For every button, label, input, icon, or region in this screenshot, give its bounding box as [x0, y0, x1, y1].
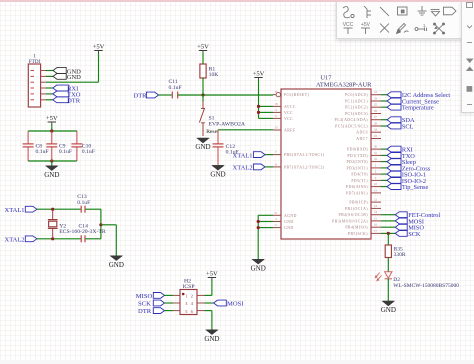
ground (C12) [210, 166, 225, 179]
svg-text:PC1(ADC1): PC1(ADC1) [345, 100, 368, 104]
svg-text:0.1uF: 0.1uF [59, 149, 72, 155]
net flag SDA [387, 117, 415, 124]
svg-text:0.1uF: 0.1uF [169, 85, 182, 91]
svg-text:26: 26 [374, 109, 378, 113]
svg-text:PB1(OC1A): PB1(OC1A) [345, 207, 368, 211]
net flag XTAL2 [5, 236, 37, 244]
svg-text:5: 5 [275, 223, 277, 227]
net flag DTR [138, 308, 173, 316]
svg-text:PC4(ADC4/SDA): PC4(ADC4/SDA) [335, 118, 369, 122]
svg-text:24: 24 [374, 97, 378, 101]
net flag RXI [387, 146, 413, 153]
svg-text:VCC: VCC [284, 117, 293, 121]
wire [381, 167, 387, 169]
svg-text:GND: GND [284, 220, 294, 224]
wire [37, 208, 81, 210]
svg-text:SCL: SCL [402, 124, 414, 131]
svg-text:DTR: DTR [67, 97, 81, 104]
op-amp U17 microcontroller ATMEGA328P-AUR [273, 75, 381, 240]
ground (S1) [195, 138, 210, 151]
icon pen tool [397, 24, 409, 34]
wire [205, 311, 212, 330]
wire [46, 99, 53, 101]
wire [381, 232, 395, 234]
wire [259, 117, 274, 119]
wire [387, 258, 389, 272]
svg-text:+5V: +5V [361, 22, 371, 28]
svg-text:13: 13 [374, 204, 378, 208]
svg-text:VCC: VCC [284, 111, 293, 115]
svg-text:PB5(SCK): PB5(SCK) [348, 232, 368, 236]
junction [50, 159, 53, 162]
svg-text:2: 2 [375, 170, 377, 174]
junction [50, 129, 53, 132]
svg-text:21: 21 [274, 211, 278, 215]
icon pin tool [415, 23, 427, 31]
junction [51, 237, 54, 240]
svg-text:330R: 330R [394, 252, 406, 258]
svg-text:GND: GND [67, 74, 81, 81]
svg-text:0.1uF: 0.1uF [36, 149, 49, 155]
net flag DTR [134, 92, 159, 99]
wire [381, 100, 387, 102]
svg-text:11: 11 [374, 188, 377, 192]
power +5V (R1) [197, 44, 209, 53]
wire [381, 186, 387, 188]
capacitor C12 [213, 130, 239, 166]
wire [381, 214, 395, 216]
svg-text:Tip_Sense: Tip_Sense [402, 184, 429, 191]
wire [46, 87, 53, 89]
net flag SCK [395, 231, 421, 238]
power +5V (FTDI) [93, 44, 105, 53]
svg-text:12: 12 [374, 198, 378, 202]
svg-text:U17: U17 [321, 75, 332, 82]
icon topology tool [434, 23, 445, 34]
net flag MOSI [214, 300, 244, 307]
net flag XTAL1 [233, 152, 274, 160]
wire [28, 130, 77, 132]
net flag Sleep [387, 159, 416, 166]
wire [381, 173, 387, 175]
wire [51, 161, 53, 166]
junction [201, 93, 204, 96]
svg-text:WL-SMCW-150080BS75000: WL-SMCW-150080BS75000 [393, 283, 459, 289]
icon gnd triangle tool [431, 10, 440, 17]
net flag GND [53, 74, 81, 82]
svg-text:25: 25 [374, 103, 378, 107]
wire [387, 279, 389, 302]
svg-text:PB4(MISO): PB4(MISO) [345, 226, 368, 230]
svg-text:20: 20 [274, 126, 278, 130]
svg-text:GND: GND [204, 335, 219, 343]
svg-text:GND: GND [210, 170, 225, 178]
wire [51, 124, 53, 131]
icon VCC tool [343, 22, 354, 34]
svg-text:16: 16 [374, 223, 378, 227]
svg-text:10: 10 [374, 182, 378, 186]
svg-text:PC2(ADC2): PC2(ADC2) [345, 106, 368, 110]
svg-text:+5V: +5V [93, 44, 105, 51]
wire [258, 221, 273, 223]
svg-text:Reset: Reset [206, 129, 219, 135]
crystal Y2 [48, 209, 106, 239]
svg-text:PC6(RESET): PC6(RESET) [284, 93, 309, 97]
wire [381, 148, 387, 150]
resistor R1 [200, 64, 219, 78]
net flag TXO [387, 153, 415, 160]
svg-text:FTDI: FTDI [29, 59, 41, 65]
svg-text:GND: GND [251, 264, 266, 272]
capacitor C14 [79, 223, 89, 242]
net flag RXI [53, 85, 79, 93]
wire [85, 208, 101, 210]
svg-text:14: 14 [374, 210, 378, 214]
svg-text:1: 1 [375, 163, 377, 167]
icon ground tool [418, 6, 427, 15]
svg-text:19: 19 [374, 128, 378, 132]
svg-text:PB6(XTAL1/TOSC1): PB6(XTAL1/TOSC1) [284, 153, 325, 157]
resistor R35 [385, 245, 406, 258]
svg-text:GND: GND [284, 226, 294, 230]
right side panel [461, 0, 474, 113]
svg-text:+5V: +5V [253, 71, 265, 78]
svg-text:27: 27 [374, 115, 378, 119]
icon line tool [380, 7, 389, 16]
svg-text:PB2(SS/OC1B): PB2(SS/OC1B) [339, 213, 369, 217]
wire [159, 94, 172, 96]
wire [381, 220, 395, 222]
icon netport tool [444, 7, 457, 15]
connector FTDI [28, 54, 46, 108]
net flag SCL [387, 123, 414, 130]
svg-text:XTAL2: XTAL2 [233, 165, 253, 172]
ground (cap bank) [44, 166, 59, 179]
wire [381, 226, 395, 228]
LED D2 [375, 272, 460, 289]
wire [259, 111, 274, 113]
wire [259, 105, 274, 107]
wire [381, 106, 387, 108]
wire [258, 80, 260, 119]
wire [381, 161, 387, 163]
wire [381, 179, 387, 181]
svg-text:22: 22 [374, 134, 378, 138]
wire [178, 94, 273, 96]
wire [205, 302, 214, 304]
junction [257, 220, 260, 223]
svg-text:DTR: DTR [134, 93, 148, 100]
icon net label tool [398, 7, 408, 15]
header H2 ICSP [173, 279, 205, 315]
wire [202, 53, 204, 65]
svg-text:3: 3 [275, 217, 277, 221]
svg-text:4: 4 [275, 108, 277, 112]
wire [46, 70, 53, 72]
wire [381, 125, 387, 127]
ground (MCU) [251, 260, 266, 273]
svg-text:+5V: +5V [197, 44, 209, 51]
net flag DTR [53, 97, 81, 105]
net flag ISO-IO-2 [387, 178, 426, 185]
svg-text:15: 15 [374, 216, 378, 220]
svg-text:MISO: MISO [136, 293, 153, 300]
net flag ISO-IO-1 [387, 171, 426, 178]
svg-text:PD7(AIN1): PD7(AIN1) [346, 191, 368, 195]
svg-text:7: 7 [275, 150, 277, 154]
wire [46, 53, 99, 83]
svg-text:VCC: VCC [343, 22, 354, 28]
svg-text:GND: GND [195, 143, 210, 151]
svg-text:9: 9 [375, 176, 377, 180]
wire [381, 154, 387, 156]
svg-text:PD0(RXD): PD0(RXD) [347, 148, 368, 152]
svg-text:18: 18 [274, 102, 278, 106]
svg-text:PD5(T1): PD5(T1) [351, 179, 368, 183]
svg-text:ATMEGA328P-AUR: ATMEGA328P-AUR [316, 82, 372, 89]
power +5V (ICSP) [206, 271, 218, 280]
wire [28, 160, 77, 162]
wire [218, 129, 273, 131]
junction [51, 208, 54, 211]
svg-text:10K: 10K [209, 72, 220, 78]
svg-text:23: 23 [374, 90, 378, 94]
wire [100, 209, 102, 239]
svg-text:XTAL1: XTAL1 [5, 207, 25, 214]
svg-text:8: 8 [275, 162, 277, 166]
svg-text:PD3(INT1): PD3(INT1) [346, 166, 368, 170]
svg-text:+5V: +5V [46, 115, 58, 122]
capacitor C11 [169, 79, 182, 98]
ground (LED) [381, 301, 396, 314]
svg-text:GND: GND [109, 261, 124, 269]
svg-text:1: 1 [423, 23, 426, 28]
svg-text:PB3(MOSI/OC2A): PB3(MOSI/OC2A) [332, 219, 368, 223]
svg-text:PB0(ICP): PB0(ICP) [349, 201, 368, 205]
net flag I2C Address Select [387, 92, 450, 99]
net flag SCK [138, 300, 173, 308]
wire [202, 78, 204, 95]
svg-text:GND: GND [44, 171, 59, 179]
capacitor C10 [71, 131, 95, 161]
toolbar [336, 0, 463, 39]
svg-text:28: 28 [374, 122, 378, 126]
svg-text:SCK: SCK [138, 301, 151, 308]
svg-text:C14: C14 [79, 223, 89, 229]
wire [85, 238, 101, 240]
junction [257, 226, 260, 229]
svg-text:0.1uF: 0.1uF [82, 149, 95, 155]
net flag TXO [53, 91, 81, 99]
power +5V (MCU) [253, 71, 265, 80]
wire [205, 280, 212, 296]
ground (ICSP) [204, 330, 219, 343]
wire [257, 215, 259, 259]
svg-text:GND: GND [381, 306, 396, 314]
net flag FET-Control [395, 212, 440, 219]
svg-text:PD6(AIN0): PD6(AIN0) [346, 185, 368, 189]
net flag MOSI [395, 218, 424, 225]
svg-text:PD4(T0): PD4(T0) [351, 173, 368, 177]
svg-text:AVCC: AVCC [284, 105, 296, 109]
svg-text:ECS-160-20-3X-TR: ECS-160-20-3X-TR [59, 229, 106, 235]
junction [99, 223, 102, 226]
junction [387, 232, 390, 235]
net flag XTAL2 [233, 164, 274, 172]
power +5V (cap bank) [46, 115, 58, 124]
net flag XTAL1 [5, 206, 37, 214]
svg-text:Temperature: Temperature [402, 105, 434, 112]
svg-text:32: 32 [374, 157, 378, 161]
svg-text:PC5(ADC5/SCL): PC5(ADC5/SCL) [335, 125, 368, 129]
svg-text:EVP-AWBO2A: EVP-AWBO2A [209, 121, 246, 127]
svg-text:17: 17 [374, 229, 378, 233]
wire [258, 227, 273, 229]
svg-text:PB7(XTAL2/TOSC2): PB7(XTAL2/TOSC2) [284, 165, 325, 169]
svg-text:AGND: AGND [284, 214, 297, 218]
net flag Temperature [387, 104, 434, 111]
icon bus tool [364, 6, 371, 18]
svg-text:AREF: AREF [284, 129, 296, 133]
net flag Tip_Sense [387, 184, 428, 191]
net flag GND [53, 68, 81, 76]
svg-text:30: 30 [374, 145, 378, 149]
svg-text:XTAL2: XTAL2 [5, 237, 25, 244]
capacitor C13 [77, 194, 90, 213]
svg-text:MOSI: MOSI [227, 301, 244, 308]
switch S1 [199, 95, 246, 136]
ground (crystal) [109, 256, 124, 269]
svg-text:31: 31 [374, 151, 378, 155]
wire [37, 238, 81, 240]
svg-text:29: 29 [274, 90, 278, 94]
svg-text:6: 6 [275, 114, 277, 118]
svg-text:SCK: SCK [408, 231, 421, 238]
net flag Zero-Cross [387, 165, 431, 172]
wire [101, 225, 116, 256]
svg-text:PC0(ADC0): PC0(ADC0) [345, 93, 368, 97]
junction [257, 111, 260, 114]
wire [387, 233, 389, 245]
capacitor C9 [46, 131, 72, 161]
wire [46, 75, 53, 77]
svg-text:PD1(TXD): PD1(TXD) [347, 154, 368, 158]
top border line [0, 0, 474, 2]
net flag MISO [136, 293, 173, 301]
wire [258, 214, 273, 216]
svg-text:PC3(ADC3): PC3(ADC3) [345, 112, 368, 116]
wire [381, 94, 387, 96]
icon +5V tool [361, 22, 371, 34]
junction [257, 105, 260, 108]
wire [381, 119, 387, 121]
svg-text:ADC6: ADC6 [356, 131, 368, 135]
icon wire tool [343, 7, 354, 18]
net flag Current_Sense [387, 98, 439, 105]
svg-text:XTAL1: XTAL1 [233, 152, 253, 159]
svg-text:PD2(INT0): PD2(INT0) [346, 160, 368, 164]
svg-text:ADC7: ADC7 [356, 137, 368, 141]
svg-text:0.1uF: 0.1uF [77, 200, 90, 206]
capacitor C8 [23, 131, 49, 161]
icon delete tool [380, 24, 389, 33]
svg-text:DTR: DTR [138, 308, 152, 315]
svg-text:+5V: +5V [206, 271, 218, 278]
wire [46, 93, 53, 95]
net flag MISO [395, 224, 424, 231]
